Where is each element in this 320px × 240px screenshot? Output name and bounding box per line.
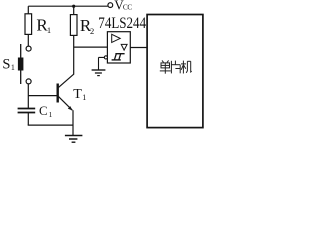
wire emitter to ground [72,110,74,135]
svg-text:2: 2 [90,26,94,36]
resistor R2 [70,15,77,36]
wire R2 top stub [73,6,75,14]
wire collector branch to 74LS244 input [74,46,108,48]
wire collector vertical (R2 bottom to T1) [73,35,75,74]
enable bubble on 74LS244 [104,56,107,59]
wire enable to ground [99,57,105,69]
svg-text:1: 1 [11,63,15,72]
ground (emitter) [65,135,83,137]
wire R1 bottom to S1 [27,34,29,46]
svg-text:1: 1 [47,25,51,35]
capacitor C1 [18,108,36,110]
svg-text:T: T [73,87,82,102]
wire base wire to T1 [28,95,57,97]
wire C1 bottom stub [27,113,29,125]
wire bottom rail [28,124,73,126]
wire R1 top stub [27,6,29,14]
svg-text:1: 1 [82,93,86,102]
node junction dot at R2 top [72,5,75,8]
svg-text:CC: CC [123,4,132,12]
transistor T1 [57,84,59,103]
resistor R1 [25,14,32,35]
MCU box 单片机 [147,15,203,128]
switch S1 [26,46,31,51]
wire 74LS244 output to MCU [130,47,147,49]
op-amp U1 74LS244 buffer box [107,32,130,63]
svg-text:S: S [2,56,10,72]
terminal Vcc circle [108,3,113,8]
ground (enable) [92,69,106,71]
svg-text:1: 1 [49,110,53,119]
svg-text:74LS244: 74LS244 [98,15,146,32]
svg-text:C: C [39,104,48,118]
wire top rail Vcc [28,5,107,7]
wire S1 bottom down to C1 [27,84,29,108]
label 单片机 (drawn strokes) [160,60,192,73]
